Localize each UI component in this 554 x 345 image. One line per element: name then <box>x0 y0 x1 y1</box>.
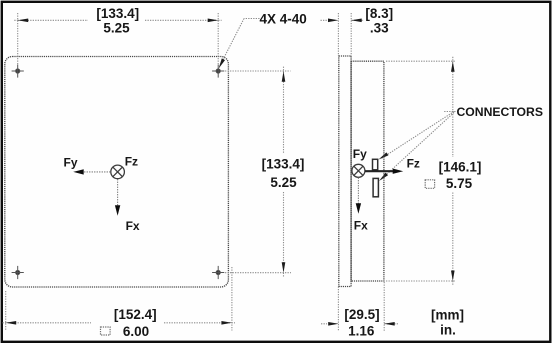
svg-text:[mm]: [mm] <box>431 308 464 323</box>
svg-text:Fy: Fy <box>353 147 367 161</box>
svg-text:Fx: Fx <box>354 219 368 233</box>
svg-text:4X 4-40: 4X 4-40 <box>260 12 307 27</box>
svg-text:5.75: 5.75 <box>446 176 473 191</box>
svg-text:[29.5]: [29.5] <box>344 307 379 322</box>
svg-text:5.25: 5.25 <box>270 175 297 190</box>
svg-text:[8.3]: [8.3] <box>365 6 393 21</box>
svg-text:Fz: Fz <box>407 157 420 171</box>
svg-text:.33: .33 <box>370 21 389 36</box>
svg-text:[146.1]: [146.1] <box>439 160 482 175</box>
svg-text:Fy: Fy <box>64 156 78 170</box>
svg-text:CONNECTORS: CONNECTORS <box>457 105 543 119</box>
svg-text:[152.4]: [152.4] <box>114 307 157 322</box>
svg-text:Fz: Fz <box>125 154 138 168</box>
svg-text:1.16: 1.16 <box>348 324 375 339</box>
svg-text:[133.4]: [133.4] <box>262 156 305 171</box>
svg-text:in.: in. <box>440 323 456 338</box>
svg-text:6.00: 6.00 <box>123 324 149 339</box>
svg-text:[133.4]: [133.4] <box>96 6 139 21</box>
svg-text:5.25: 5.25 <box>103 21 130 36</box>
svg-text:Fx: Fx <box>126 219 140 233</box>
